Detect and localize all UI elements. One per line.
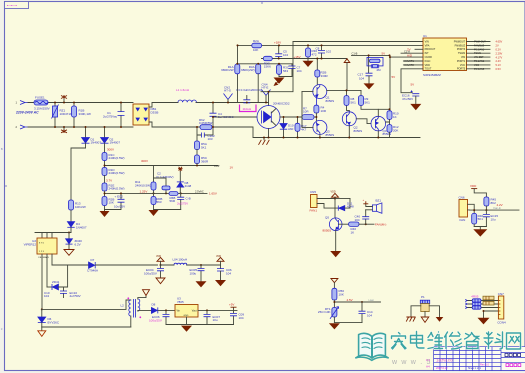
sheet zone tick left: [5, 185, 8, 187]
svg-text:4148: 4148: [347, 205, 354, 209]
U1 left pin names: [425, 40, 436, 70]
power symbol thermistor: [331, 279, 338, 289]
svg-text:VDD: VDD: [425, 64, 430, 67]
earth symbol below varistor: [61, 127, 67, 133]
capacitor C17: [358, 73, 373, 84]
svg-text:4148: 4148: [185, 184, 192, 188]
svg-text:56R: 56R: [170, 199, 176, 203]
char wang: [507, 333, 521, 349]
resistor RP2: [483, 301, 494, 305]
VDD symbol cn6: [470, 184, 486, 197]
svg-text:C3 0.3uF/1200VDC: C3 0.3uF/1200VDC: [236, 88, 263, 92]
svg-text:360R: 360R: [201, 159, 209, 163]
+5V power symbol: [229, 303, 237, 311]
connector CN4: [262, 83, 271, 103]
svg-text:563: 563: [283, 69, 288, 73]
char zi: [465, 333, 480, 349]
capacitor C06: [217, 268, 232, 280]
wire U2 top rail: [35, 233, 71, 239]
char jia: [392, 333, 407, 350]
svg-text:CT946A: CT946A: [87, 269, 98, 273]
ground cn6 cluster: [473, 227, 487, 237]
svg-text:8550S: 8550S: [326, 133, 335, 137]
svg-text:5V: 5V: [392, 75, 396, 79]
svg-text:KIAC: KIAC: [425, 60, 431, 63]
junction dots chains: [85, 126, 87, 128]
AC input connector pin 1 (L): [16, 101, 29, 105]
diode D2: [101, 127, 121, 153]
IC U3 7805: [175, 296, 237, 317]
capacitor EC2B: [105, 193, 126, 209]
wire PWM net to U1 pin1: [293, 41, 423, 43]
svg-text:104: 104: [44, 294, 49, 298]
svg-text:4K7: 4K7: [301, 127, 307, 131]
char dian: [411, 332, 425, 349]
svg-text:104: 104: [239, 316, 244, 320]
VDD power arrow: [344, 59, 350, 91]
wire DC- return from bridge: [149, 122, 420, 138]
svg-text:240K(0.5W): 240K(0.5W): [109, 171, 125, 175]
svg-text:10u/25V: 10u/25V: [114, 204, 125, 208]
svg-text:104: 104: [283, 53, 288, 57]
ground rail under R11: [154, 209, 181, 211]
svg-text:220V-240V AC: 220V-240V AC: [15, 111, 39, 115]
svg-text:P0.1/AN1: P0.1/AN1: [474, 60, 485, 63]
resistor R13: [69, 200, 86, 221]
resistor R6B series: [169, 192, 178, 204]
svg-text:Fan-In: Fan-In: [494, 206, 502, 210]
diode D6: [38, 308, 60, 327]
capacitor EC05: [190, 264, 205, 281]
connector CN6: [459, 195, 475, 221]
svg-text:8050S: 8050S: [354, 129, 363, 133]
svg-text:7805: 7805: [177, 300, 184, 304]
svg-text:1:1: 1:1: [426, 358, 431, 362]
svg-text:5K1: 5K1: [365, 100, 371, 104]
svg-text:TSAIN: TSAIN: [474, 52, 481, 55]
svg-text:FAN/BUZ: FAN/BUZ: [455, 44, 466, 47]
svg-text:FAN1: FAN1: [310, 208, 318, 212]
svg-text:8050S: 8050S: [326, 99, 335, 103]
resistor R3A: [241, 64, 261, 102]
wire 1.25V net: [105, 192, 208, 194]
resistor R45: [484, 197, 496, 210]
svg-text:25C=10K: 25C=10K: [318, 310, 331, 314]
capacitor EC06: [149, 309, 170, 324]
svg-text:HT-S: HT-S: [224, 89, 231, 93]
power + symbol buzzer: [363, 198, 369, 204]
svg-text:FB DRAIN: FB DRAIN: [39, 256, 50, 259]
svg-text:D8: D8: [152, 303, 156, 307]
svg-text:330K,1W: 330K,1W: [79, 112, 92, 116]
resistor R1D: [102, 168, 125, 184]
svg-text:VCC: VCC: [460, 64, 465, 67]
chassis ground IGBT: [259, 138, 270, 145]
wire +18V net to U1 pin2: [238, 45, 424, 102]
svg-text:2.4V: 2.4V: [496, 59, 502, 63]
surge bottom open ground: [421, 312, 429, 323]
svg-text:5K1: 5K1: [201, 145, 207, 149]
svg-text:VIN: VIN: [461, 56, 465, 59]
wire resistor top row: [237, 63, 292, 65]
svg-text:TOUT: TOUT: [425, 68, 432, 71]
svg-text:HT-E: HT-E: [262, 86, 269, 90]
svg-text:2007.6.12: 2007.6.12: [436, 366, 448, 370]
emitter wire: [268, 129, 270, 138]
transistor Q3: [302, 92, 334, 138]
inductor L04: [161, 257, 221, 265]
svg-text:472: 472: [312, 52, 317, 56]
svg-text:8K2: 8K2: [491, 201, 497, 205]
svg-text:1dzw.co: 1dzw.co: [436, 358, 453, 363]
watermark characters: [392, 332, 521, 350]
svg-text:10R: 10R: [303, 110, 309, 114]
capacitor C40: [355, 210, 370, 225]
svg-text:4R05: 4R05: [471, 295, 479, 299]
capacitor EC07: [204, 309, 221, 324]
resistor R62 series in return: [199, 118, 213, 130]
svg-text:5V: 5V: [411, 83, 415, 87]
zener ZD40: [66, 233, 83, 250]
capacitor C-B: [177, 193, 191, 209]
svg-text:D3SB: D3SB: [151, 110, 159, 114]
ferrite bead FB1: [472, 299, 481, 302]
capacitor C10b: [44, 287, 81, 298]
svg-text:PROOUT: PROOUT: [425, 48, 436, 51]
resistor R12: [387, 125, 399, 138]
U1 right pin names: [454, 40, 466, 70]
char liao: [484, 332, 503, 349]
char xiu: [445, 332, 463, 349]
capacitor C5: [275, 45, 288, 58]
fuse FUSE1: [34, 96, 50, 111]
corner revision box: [5, 2, 29, 9]
resistor R2C series: [263, 56, 272, 68]
wire Q1 emitter row: [327, 89, 361, 91]
svg-text:240K(0.5W): 240K(0.5W): [109, 187, 125, 191]
svg-text:1N4007: 1N4007: [110, 141, 121, 145]
svg-text:10D471K: 10D471K: [60, 112, 73, 116]
transistor Q5: [323, 216, 349, 233]
diode D10: [280, 117, 294, 138]
diode D11: [338, 199, 354, 211]
open ground under EC04: [156, 278, 165, 284]
resistor R0B: [151, 193, 162, 209]
svg-text:300V: 300V: [107, 148, 114, 152]
diode D1: [82, 127, 102, 148]
right net label texts: [474, 41, 486, 71]
svg-text:240K(0.5W): 240K(0.5W): [135, 183, 151, 187]
capacitor C3: [236, 88, 263, 103]
right pin voltage labels: [496, 40, 503, 71]
ground under C17: [364, 83, 375, 89]
svg-text:+: +: [363, 198, 365, 202]
svg-text:L04 100uH: L04 100uH: [173, 257, 188, 261]
svg-text:PWM-OUT: PWM-OUT: [474, 41, 486, 44]
capacitor EC04: [144, 265, 164, 278]
resistor R4: [314, 105, 327, 120]
svg-text:2u/275V: 2u/275V: [177, 201, 188, 205]
wire fan-in net: [470, 209, 520, 211]
svg-text:PWMOUT: PWMOUT: [454, 40, 466, 43]
svg-text:L2: L2: [121, 303, 125, 307]
svg-text:10u: 10u: [491, 217, 496, 221]
resistor R5A: [195, 141, 207, 155]
svg-text:1N4007: 1N4007: [76, 225, 87, 229]
svg-text:C-B: C-B: [186, 196, 191, 200]
svg-text:563: 563: [157, 200, 162, 204]
svg-text:4u7/50V: 4u7/50V: [70, 294, 81, 298]
svg-text:+ EC2: + EC2: [115, 195, 124, 199]
svg-text:2.5VAC: 2.5VAC: [195, 190, 204, 194]
svg-text:CON4: CON4: [497, 321, 506, 325]
resistor R46: [472, 213, 484, 226]
IGBT Q-IGBT: [257, 102, 290, 129]
svg-text:0.5V: 0.5V: [496, 67, 502, 71]
sheet zone tick top: [261, 2, 263, 5]
U1 pin7 wire: [403, 64, 423, 66]
capacitor C2 film: [154, 178, 171, 193]
svg-text:10R: 10R: [321, 109, 327, 113]
svg-text:3.7V: 3.7V: [106, 179, 112, 183]
svg-text:0.2V: 0.2V: [496, 48, 502, 52]
svg-text:+15V: +15V: [294, 55, 301, 59]
svg-text:100u: 100u: [190, 271, 197, 275]
U1 pin4 wire: [401, 52, 423, 54]
thermistor RT1: [318, 307, 339, 323]
svg-text:680K/2W: 680K/2W: [221, 68, 234, 72]
AC input connector pin 2 (N): [16, 125, 29, 129]
svg-text:103: 103: [208, 137, 213, 141]
resistor R7 gate drive: [280, 106, 316, 119]
resistor R1B: [72, 103, 92, 128]
svg-text:20N60C3D2: 20N60C3D2: [273, 102, 290, 106]
surge left chassis ground: [406, 306, 421, 322]
resistor R3C: [277, 64, 290, 77]
title block table: [426, 347, 525, 371]
U1 pin5 wire: [390, 56, 423, 58]
svg-text:Sheet 1 of 1: Sheet 1 of 1: [468, 367, 482, 370]
capacitor EC15: [483, 210, 498, 226]
ground under R30: [303, 61, 314, 67]
svg-text:+5V: +5V: [229, 303, 234, 307]
Q5 emitter ground: [330, 230, 341, 257]
title block vendor name: [505, 353, 521, 356]
svg-text:FAN/BUZ: FAN/BUZ: [474, 44, 485, 47]
transistor Q2: [342, 112, 371, 138]
svg-text:B: B: [1, 147, 3, 151]
svg-text:CN5: CN5: [310, 190, 316, 194]
resistor R2B: [315, 59, 329, 85]
wire DC+ rail from bridge: [149, 103, 269, 108]
U1 pin8 wire: [401, 69, 423, 93]
svg-text:1K: 1K: [351, 230, 355, 234]
power arrow symbol: [274, 80, 281, 87]
svg-text:Vout: Vout: [192, 310, 197, 313]
U1 pin3 stub: [415, 48, 423, 50]
open ground under D6: [38, 327, 46, 336]
svg-text:6.2V: 6.2V: [75, 242, 81, 246]
svg-text:BZ1: BZ1: [376, 199, 382, 203]
char wang: [507, 333, 521, 349]
svg-text:10K/2W: 10K/2W: [75, 205, 86, 209]
wire t-sen net: [334, 301, 380, 303]
svg-text:102: 102: [326, 49, 331, 53]
svg-text:47u/50V: 47u/50V: [402, 97, 413, 101]
svg-text:P0.3/AN3: P0.3/AN3: [474, 48, 485, 51]
connector CN5: [310, 190, 339, 212]
junction dots top: [237, 44, 239, 46]
IC U2 VIPER12A: [24, 238, 57, 259]
resistor R17: [295, 117, 307, 138]
svg-text:FUSE1: FUSE1: [35, 96, 45, 100]
connector CN2 coil: [224, 86, 233, 103]
svg-text:4M: 4M: [376, 68, 381, 72]
svg-text:•—•—•: •—•—•: [7, 4, 17, 8]
svg-text:1.65V: 1.65V: [209, 192, 217, 196]
varistor RZ1: [52, 103, 73, 128]
transistor Q1: [302, 85, 334, 106]
char dian: [411, 332, 425, 349]
ground under EC16: [410, 104, 421, 110]
char wei: [428, 332, 443, 349]
svg-text:VIN-DET: VIN-DET: [474, 56, 484, 59]
connector CN7: [497, 292, 506, 324]
svg-text:8 7 6: 8 7 6: [39, 242, 45, 244]
ground under R3C: [274, 78, 285, 84]
surge suppressor P1: [420, 295, 429, 312]
svg-text:P1: P1: [421, 295, 425, 299]
wire to VIPER rail: [71, 148, 86, 200]
svg-text:240K(0.5W): 240K(0.5W): [109, 156, 125, 160]
gate wire: [213, 116, 257, 118]
ferrite bead FB2: [472, 302, 481, 305]
capacitor C8: [316, 45, 332, 58]
ground under R0B: [149, 210, 159, 216]
CN7 wires: [467, 301, 498, 318]
svg-text:R2A: R2A: [253, 39, 259, 43]
svg-text:t-sen: t-sen: [369, 299, 375, 302]
resistor R2B: [102, 193, 114, 209]
svg-text:PORT1: PORT1: [457, 60, 466, 63]
svg-text:104: 104: [226, 272, 231, 276]
svg-text:C8: C8: [316, 46, 320, 50]
capacitor C09: [230, 310, 244, 324]
zener ZD41: [47, 265, 68, 290]
svg-text:5K1: 5K1: [478, 217, 484, 221]
resistor R10: [386, 111, 399, 125]
VDD symbol 1: [156, 255, 164, 266]
svg-text:L1 1.6mH: L1 1.6mH: [176, 88, 189, 92]
svg-text:5K1: 5K1: [351, 100, 357, 104]
ground under EC05: [196, 281, 207, 287]
secondary top to ground: [138, 290, 150, 299]
zener D8: [177, 181, 192, 193]
svg-text:20K: 20K: [393, 129, 398, 133]
svg-text:15K6: 15K6: [264, 64, 271, 68]
svg-text:680K(2W): 680K(2W): [241, 68, 255, 72]
svg-text:VPA: VPA: [425, 44, 430, 47]
char jia: [392, 333, 407, 350]
svg-text:A/D: A/D: [407, 53, 413, 57]
VDD symbol 2: [216, 255, 224, 269]
VDD symbol q5: [331, 191, 339, 218]
char liao: [484, 332, 503, 349]
svg-text:CCP: CCP: [214, 164, 220, 168]
svg-text:+18V: +18V: [274, 40, 281, 44]
buzzer BZ1: [366, 199, 382, 214]
svg-text:5.1V: 5.1V: [496, 63, 502, 67]
svg-text:VIN: VIN: [425, 40, 429, 43]
resistor R1E: [102, 183, 125, 193]
diode D7: [52, 258, 158, 273]
svg-text:104: 104: [359, 76, 364, 80]
wire CCP branch: [105, 165, 219, 167]
svg-text:5V: 5V: [382, 52, 386, 56]
svg-text:CN6: CN6: [459, 195, 465, 199]
open ground under ZD40: [64, 250, 74, 256]
junction dots igbt: [268, 91, 270, 93]
char wei: [428, 332, 443, 349]
svg-text:PORT3: PORT3: [457, 48, 466, 51]
resistor RP1: [483, 296, 494, 300]
svg-text:100u/25V: 100u/25V: [144, 271, 157, 275]
watermark book icon: [356, 333, 388, 360]
capacitor C14: [359, 302, 373, 323]
watermark character halo: [392, 332, 521, 350]
svg-text:4.5V: 4.5V: [347, 298, 353, 302]
char zi: [465, 333, 480, 349]
collector riser wire: [261, 42, 293, 106]
svg-text:10K: 10K: [253, 48, 258, 52]
svg-text:C1-B: C1-B: [352, 52, 358, 56]
svg-text:A4: A4: [426, 365, 430, 369]
resistor R1C: [102, 153, 125, 168]
svg-text:104: 104: [355, 218, 360, 222]
wire N: input to bridge: [28, 126, 133, 128]
svg-text:10K: 10K: [339, 293, 344, 297]
svg-text:1K: 1K: [393, 115, 397, 119]
char xiu: [445, 332, 463, 349]
svg-text:S3F9454BZZ: S3F9454BZZ: [423, 73, 441, 77]
svg-text:10u: 10u: [213, 318, 218, 322]
junction dots input rails: [54, 102, 56, 104]
svg-text:1V: 1V: [230, 166, 234, 170]
svg-text:100u/25V: 100u/25V: [149, 319, 162, 323]
ground thermistor: [329, 323, 362, 330]
resistor R2A: [252, 39, 262, 52]
svg-text:FAN(M-): FAN(M-): [375, 222, 386, 226]
bridge rectifier DB1: [133, 104, 158, 125]
drain wire to transformer: [42, 300, 131, 309]
IC U1: [423, 34, 467, 77]
resistor R30: [306, 45, 318, 60]
oscillator X1 box: [367, 55, 383, 73]
earth power symbol above D8: [178, 167, 183, 183]
ground CN7: [478, 318, 490, 325]
svg-text:4.65V: 4.65V: [496, 40, 503, 44]
resistor R8: [344, 90, 356, 111]
ground under R2B: [100, 210, 110, 218]
capacitor C102: [197, 127, 215, 141]
svg-text:Q5: Q5: [325, 216, 329, 220]
svg-text:104: 104: [297, 69, 302, 73]
junction dots snubber: [212, 102, 214, 104]
transistor Q4: [371, 109, 391, 137]
svg-text:3.15A/250V: 3.15A/250V: [34, 106, 50, 110]
svg-text:Rev 1.0: Rev 1.0: [480, 363, 489, 367]
resistor R40: [349, 222, 374, 234]
